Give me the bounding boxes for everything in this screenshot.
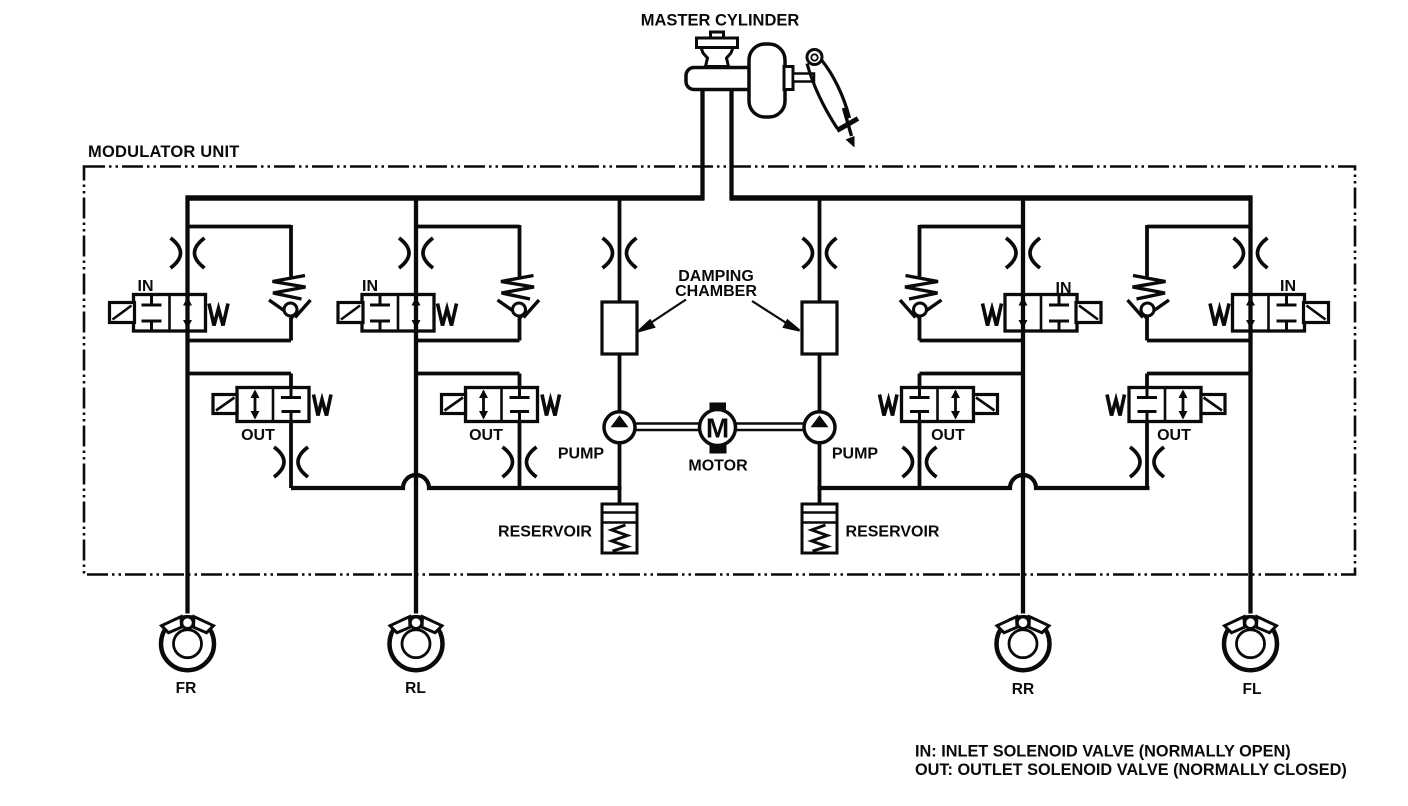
svg-text:PUMP: PUMP xyxy=(832,446,879,463)
svg-text:RESERVOIR: RESERVOIR xyxy=(498,524,592,541)
svg-text:RR: RR xyxy=(1012,681,1034,698)
svg-text:MASTER CYLINDER: MASTER CYLINDER xyxy=(641,12,800,30)
svg-text:PUMP: PUMP xyxy=(558,446,605,463)
svg-text:IN: IN xyxy=(1056,280,1072,297)
svg-text:OUT: OUT xyxy=(469,427,503,444)
svg-text:IN: INLET SOLENOID VALVE (NORM: IN: INLET SOLENOID VALVE (NORMALLY OPEN) xyxy=(915,743,1291,761)
svg-text:FR: FR xyxy=(176,680,197,697)
svg-text:IN: IN xyxy=(362,278,378,295)
svg-text:IN: IN xyxy=(138,278,154,295)
svg-text:OUT: OUT xyxy=(1157,427,1191,444)
svg-text:OUT: OUT xyxy=(241,427,275,444)
svg-text:OUT: OUTLET SOLENOID VALVE (NO: OUT: OUTLET SOLENOID VALVE (NORMALLY CLO… xyxy=(915,761,1347,779)
svg-text:RL: RL xyxy=(405,680,426,697)
svg-text:MODULATOR UNIT: MODULATOR UNIT xyxy=(88,143,240,161)
svg-text:MOTOR: MOTOR xyxy=(688,458,748,475)
svg-text:RESERVOIR: RESERVOIR xyxy=(846,524,940,541)
svg-text:CHAMBER: CHAMBER xyxy=(675,283,757,300)
svg-text:IN: IN xyxy=(1280,278,1296,295)
svg-text:OUT: OUT xyxy=(931,427,965,444)
svg-text:FL: FL xyxy=(1243,681,1262,698)
svg-text:M: M xyxy=(706,413,729,444)
